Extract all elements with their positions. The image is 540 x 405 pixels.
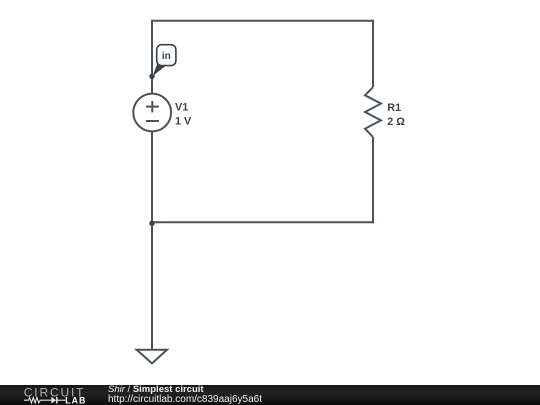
label V1 <box>175 102 188 114</box>
resistor R1 body zigzag <box>365 87 381 137</box>
wire junction to ground <box>151 222 153 349</box>
wire R1 top lead <box>372 20 374 88</box>
label R1 <box>387 102 401 114</box>
svg-text:1 V: 1 V <box>175 116 192 128</box>
wire V1 negative terminal to junction <box>151 131 153 222</box>
ground <box>137 350 167 364</box>
wire left branch: top corner to V1 positive terminal <box>151 20 153 94</box>
svg-text:2 Ω: 2 Ω <box>387 116 405 128</box>
wire R1 bottom lead to bottom rail <box>372 137 374 223</box>
svg-text:in: in <box>162 51 171 62</box>
node flag "in" <box>149 45 176 79</box>
value 1 V <box>175 116 192 128</box>
footer bar <box>0 385 540 405</box>
wire bottom horizontal rail <box>152 221 374 223</box>
CircuitLab logo <box>0 385 100 405</box>
wire top horizontal rail <box>152 20 373 22</box>
svg-text:R1: R1 <box>387 102 401 114</box>
svg-text:V1: V1 <box>175 102 188 114</box>
svg-text:LAB: LAB <box>65 395 86 405</box>
value 2 Ω <box>387 116 405 128</box>
junction node at bottom rail <box>149 221 154 226</box>
voltage source V1 <box>133 94 171 132</box>
